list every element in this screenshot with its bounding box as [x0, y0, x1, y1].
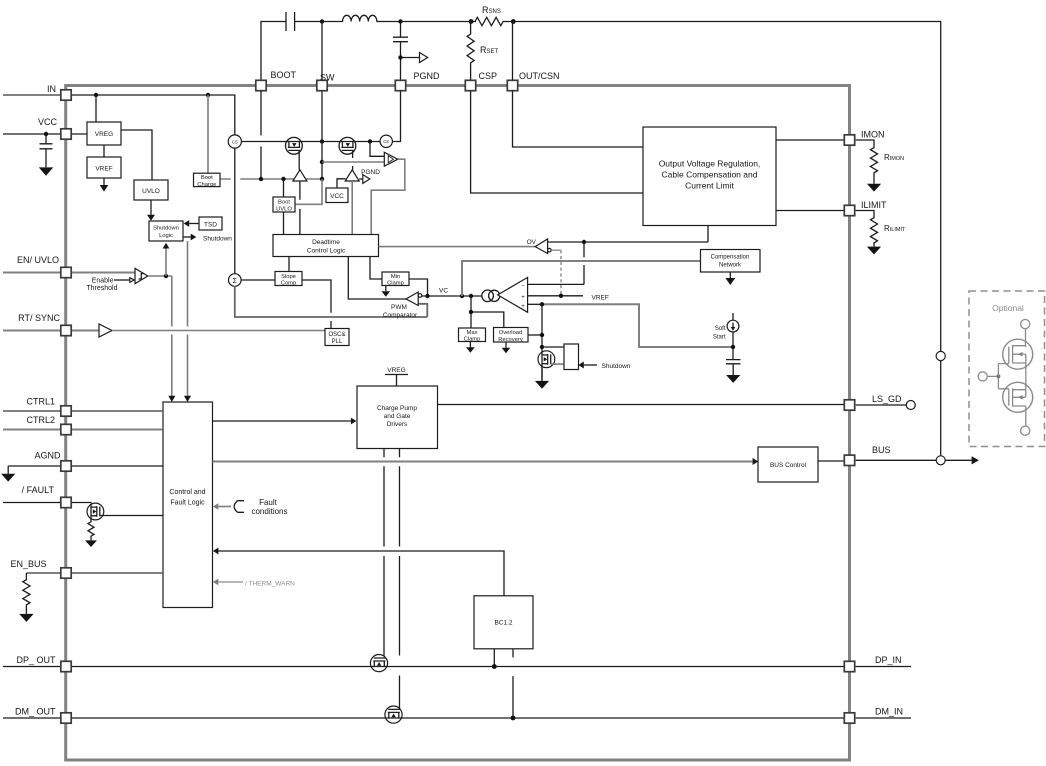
svg-text:Boot: Boot	[201, 175, 213, 181]
node soft start	[731, 345, 735, 349]
wire BUS external	[856, 459, 972, 461]
svg-text:Optional: Optional	[992, 303, 1024, 313]
node OV input	[582, 240, 586, 244]
wire enable down to Control Logic	[171, 276, 173, 396]
resistor EN_BUS pulldown	[23, 573, 30, 614]
wire BC1.2 to DM	[512, 649, 514, 718]
wire deadtime to OV comparator	[379, 246, 536, 248]
wire EN_BUS	[26, 572, 162, 574]
block Slope Comp	[275, 272, 302, 286]
svg-text:PLL: PLL	[332, 339, 343, 345]
svg-text:ILIMIT: ILIMIT	[861, 200, 887, 210]
wire CS comparator out to deadtime	[371, 159, 405, 234]
pin DM_IN	[844, 713, 854, 723]
node VCC cap	[44, 132, 48, 136]
node optional gate junction	[996, 374, 1000, 378]
block Output Voltage Regulation	[643, 127, 776, 226]
svg-text:Clamp: Clamp	[464, 337, 481, 343]
svg-text:Clamp: Clamp	[387, 281, 404, 287]
ground Q3	[535, 381, 549, 389]
svg-text:Fault Logic: Fault Logic	[170, 500, 205, 507]
resistor Rimon	[856, 140, 878, 184]
wire shutdown discharge branch	[541, 304, 543, 380]
svg-text:Comparator: Comparator	[383, 312, 418, 319]
wire Shutdown Logic to Control Logic	[187, 241, 189, 396]
svg-text:+: +	[521, 295, 525, 301]
wire ILIMIT out	[776, 210, 844, 212]
gate OR fault conditions	[234, 501, 244, 513]
wire boot charge line	[220, 178, 322, 180]
svg-text:/ FAULT: / FAULT	[22, 485, 55, 495]
node IN-BootCharge	[206, 93, 210, 97]
node VC max clamp	[469, 294, 473, 298]
svg-text:Output Voltage Regulation,: Output Voltage Regulation,	[659, 159, 761, 169]
arrow VREF down	[103, 178, 105, 185]
svg-text:Drivers: Drivers	[387, 421, 408, 428]
wire slope comp to deadtime	[288, 257, 290, 272]
pin BUS	[844, 455, 854, 465]
transistor Q7 optional high	[1003, 339, 1033, 369]
ground Rilimit	[867, 247, 881, 255]
svg-text:and Gate: and Gate	[384, 413, 411, 420]
svg-text:DM_IN: DM_IN	[875, 707, 903, 717]
svg-text:AGND: AGND	[34, 451, 61, 461]
svg-text:Cable Compensation and: Cable Compensation and	[662, 170, 758, 180]
ground PGND flag driver	[359, 178, 363, 180]
node Rsns right	[511, 19, 516, 24]
wire AGND	[8, 465, 163, 467]
wire OV ref dashed	[551, 249, 561, 251]
arrow Shutdown out	[184, 236, 191, 238]
arrow compensation down	[729, 272, 731, 278]
node VREF	[559, 294, 563, 298]
op-amp LS gate driver	[345, 170, 359, 181]
svg-text:OSC&: OSC&	[328, 332, 345, 338]
pin IN	[61, 90, 71, 100]
svg-text:Shutdown: Shutdown	[203, 236, 232, 243]
svg-text:Slope: Slope	[281, 274, 296, 280]
pin CSP	[465, 80, 475, 90]
block BC1.2	[474, 596, 533, 649]
svg-text:UVLO: UVLO	[142, 188, 160, 195]
svg-text:VREG: VREG	[387, 367, 405, 374]
capacitor output cap	[393, 22, 408, 81]
svg-text:BC1.2: BC1.2	[494, 620, 512, 627]
wire sigma to slope comp	[241, 279, 275, 281]
svg-text:Min: Min	[391, 274, 400, 280]
pin IMON	[844, 135, 854, 145]
svg-text:UVLO: UVLO	[276, 206, 292, 212]
block Boot UVLO	[273, 197, 295, 212]
wire VC to clamps	[471, 296, 504, 328]
wire fault gate to control	[100, 515, 163, 517]
wire comparator out	[148, 275, 172, 277]
node CS circle right	[380, 135, 392, 147]
arrow into Control top right	[184, 396, 191, 402]
pin DM_OUT	[61, 713, 71, 723]
svg-text:Control and: Control and	[169, 489, 205, 496]
block Overload Recovery	[494, 328, 529, 343]
svg-text:Σ: Σ	[233, 278, 238, 285]
wire LS driver to deadtime	[351, 181, 353, 235]
wire slope comp to OSC	[302, 280, 331, 329]
arrow overload down	[505, 342, 507, 348]
resistor fault pulldown	[88, 520, 94, 541]
svg-text:Threshold: Threshold	[86, 285, 117, 292]
node SW-rail	[320, 139, 324, 143]
svg-text:VREG: VREG	[95, 131, 113, 138]
svg-text:EN_BUS: EN_BUS	[10, 559, 46, 569]
svg-text:Overload: Overload	[499, 330, 523, 336]
pin DP_OUT	[61, 661, 71, 671]
pin CTRL2	[61, 424, 71, 434]
node IN-VREG	[94, 93, 98, 97]
wire BC1.2 to control	[218, 551, 504, 596]
wire top rail BOOT riser	[261, 22, 286, 81]
svg-text:SW: SW	[320, 73, 335, 83]
wire sigma to PWM input	[235, 286, 427, 317]
ground AGND	[7, 466, 9, 474]
node VC comp network	[460, 294, 464, 298]
wire min clamp to VC	[409, 279, 428, 296]
svg-text:Enable: Enable	[92, 278, 114, 285]
wire to Rsns	[401, 21, 477, 23]
wire control to bus control	[213, 461, 753, 463]
wire VCC to LS driver	[337, 179, 346, 188]
pin OUT/CSN	[507, 80, 517, 90]
svg-text:RSNS: RSNS	[482, 5, 501, 15]
wire DM line	[3, 717, 844, 719]
svg-text:conditions: conditions	[251, 507, 287, 516]
svg-text:Comp: Comp	[281, 281, 296, 287]
transistor Q6 DM switch	[385, 706, 402, 723]
op-amp HS gate driver	[293, 170, 307, 181]
svg-text:PGND: PGND	[414, 71, 441, 81]
wire power stage rail	[241, 141, 380, 143]
node boot line UVLO tap	[281, 177, 285, 181]
svg-text:IN: IN	[47, 84, 56, 94]
arrow shutdown in	[584, 364, 597, 366]
wire CTRL1	[3, 410, 163, 412]
arrow enable label pointer	[114, 279, 130, 281]
block TSD	[199, 217, 222, 230]
wire IN to VREG	[95, 95, 97, 122]
resistor Rilimit	[856, 211, 878, 247]
ground soft start	[726, 375, 740, 383]
transistor Q1 high-side	[286, 137, 303, 169]
capacitor boot cap	[286, 12, 295, 31]
pin DP_IN	[844, 661, 854, 671]
wire soft start net	[542, 304, 731, 347]
svg-text:+: +	[521, 304, 525, 310]
wire OUT/CSN feed	[513, 22, 644, 148]
block Control and Fault Logic	[163, 402, 213, 608]
svg-text:LS_GD: LS_GD	[872, 394, 902, 404]
wire RT/SYNC to OSC	[112, 330, 325, 332]
ground PGND flag top	[401, 57, 420, 59]
svg-text:VREF: VREF	[95, 166, 112, 173]
svg-text:IMON: IMON	[861, 130, 885, 140]
wire IN stub external	[3, 94, 61, 96]
wire bus control to pin	[818, 460, 844, 462]
wire enable up to Shutdown Logic	[165, 249, 167, 277]
node DM junction	[511, 716, 516, 721]
block Deadtime Control Logic	[273, 235, 379, 257]
block VCC driver supply	[326, 188, 348, 203]
wire DM_IN external	[856, 717, 911, 719]
transistor Q4 fault	[87, 503, 104, 520]
svg-text:Logic: Logic	[159, 233, 173, 239]
svg-text:Boot: Boot	[278, 200, 290, 206]
wire Q3 to ground	[541, 367, 543, 381]
wire HS driver to deadtime	[299, 181, 301, 235]
wire /FAULT	[3, 502, 91, 505]
block shutdown driver	[564, 344, 579, 370]
node Rset top	[469, 19, 474, 24]
node optional gate terminal	[978, 372, 987, 381]
block Optional dashed	[969, 291, 1045, 447]
wire CS left down to sigma	[234, 148, 236, 274]
buffer RT/SYNC	[99, 324, 112, 337]
node sigma summer	[229, 274, 242, 287]
pin AGND	[61, 461, 71, 471]
wire top rail to right edge	[513, 22, 940, 456]
wire RT/SYNC external	[3, 330, 99, 332]
node clamp branch	[469, 310, 473, 314]
node boot line BOOT	[259, 177, 263, 181]
node enable out	[164, 274, 168, 278]
svg-text:Max: Max	[467, 330, 478, 336]
node optional top terminal	[1021, 320, 1030, 329]
svg-text:Charge: Charge	[197, 182, 216, 188]
node output cap gnd	[398, 55, 402, 59]
node SW top	[320, 19, 324, 23]
svg-text:CTRL2: CTRL2	[26, 415, 55, 425]
node boot line SW	[320, 177, 324, 181]
svg-text:OUT/CSN: OUT/CSN	[519, 71, 560, 81]
wire gate drive DM	[399, 449, 401, 710]
node CS circle left	[228, 135, 241, 148]
node overload tap	[540, 333, 544, 337]
wire SW riser	[321, 22, 323, 81]
transistor Q2 low-side	[339, 137, 356, 169]
node LS drain	[368, 139, 372, 143]
svg-text:DP_IN: DP_IN	[875, 655, 902, 665]
wire cap to SW node	[295, 21, 322, 23]
block Boot Charge	[194, 173, 221, 186]
wire control to charge pump	[213, 420, 351, 422]
inductor L	[322, 15, 401, 21]
node VC min clamp	[425, 294, 429, 298]
node open circle right rail	[936, 351, 945, 360]
svg-text:BUS: BUS	[872, 445, 891, 455]
wire DP_IN external	[856, 666, 911, 668]
wire VC to compensation network	[462, 261, 701, 296]
wire DP line	[3, 666, 844, 668]
op-amp OV comparator	[535, 239, 547, 254]
block Charge Pump and Gate Drivers	[357, 386, 438, 449]
wire IN to Boot Charge	[207, 95, 209, 173]
wire UVLO to Shutdown Logic	[150, 200, 152, 215]
wire VC line	[422, 295, 482, 297]
svg-text:VREF: VREF	[592, 294, 609, 301]
wire SW to CS comparator	[322, 161, 384, 163]
wire optional source bottom	[1025, 406, 1027, 426]
wire deadtime to min clamp	[370, 257, 382, 280]
capacitor soft start	[726, 360, 741, 375]
pin BOOT	[256, 80, 266, 90]
op-amp CS comparator	[384, 152, 398, 166]
block Max Clamp	[459, 328, 486, 342]
block Min Clamp	[382, 272, 409, 286]
IC boundary	[66, 86, 850, 761]
svg-text:CS: CS	[232, 139, 238, 144]
svg-text:CSP: CSP	[479, 71, 498, 81]
svg-text:/ THERM_WARN: / THERM_WARN	[245, 580, 295, 587]
svg-text:VC: VC	[439, 288, 448, 295]
svg-text:RSET: RSET	[480, 45, 499, 55]
resistor Rsns	[475, 17, 513, 25]
svg-text:TSD: TSD	[204, 222, 217, 229]
wire VREG to VREF	[103, 145, 105, 157]
svg-text:Start: Start	[713, 335, 726, 341]
pin VCC	[61, 129, 71, 139]
wire BC1.2 to DP	[493, 649, 495, 667]
wire LS_GD external	[856, 404, 907, 406]
arrow TSD to Shutdown Logic	[189, 223, 199, 225]
resistor Rset	[467, 22, 474, 81]
svg-text:−: −	[521, 284, 525, 290]
arrow min clamp down	[385, 286, 387, 292]
svg-text:BUS Control: BUS Control	[770, 462, 807, 469]
svg-text:Fault: Fault	[259, 498, 278, 507]
pin /FAULT	[61, 497, 71, 507]
svg-text:CTRL1: CTRL1	[26, 397, 55, 407]
svg-text:Shutdown: Shutdown	[153, 226, 179, 232]
block Compensation Network	[701, 250, 761, 273]
wire error amp neg input	[528, 242, 584, 284]
wire optional drain top	[1025, 329, 1027, 346]
wire error amp soft start input	[528, 303, 542, 305]
ground VCC cap	[39, 167, 53, 175]
svg-text:EN/ UVLO: EN/ UVLO	[17, 255, 59, 265]
wire VCC external	[3, 133, 87, 135]
pin RT/SYNC	[61, 325, 71, 335]
arrow therm warn	[218, 581, 243, 583]
svg-text:RILIMIT: RILIMIT	[884, 224, 906, 233]
svg-text:DM_ OUT: DM_ OUT	[15, 707, 56, 717]
node LS_GD terminal	[906, 401, 915, 410]
svg-text:Compensation: Compensation	[711, 255, 750, 261]
capacitor VCC bypass	[40, 134, 53, 167]
ground fault	[85, 540, 97, 547]
svg-text:VCC: VCC	[330, 193, 344, 200]
svg-text:DP_ OUT: DP_ OUT	[16, 655, 56, 665]
svg-text:RT/ SYNC: RT/ SYNC	[18, 313, 60, 323]
svg-text:Shutdown: Shutdown	[602, 363, 631, 370]
wire EN/UVLO to comparator	[3, 272, 135, 274]
node DP junction	[492, 664, 497, 669]
wire boot line to Boot UVLO	[283, 179, 285, 197]
wire soft start node	[732, 332, 734, 359]
pin LS_GD	[844, 400, 854, 410]
pin EN/UVLO	[61, 267, 71, 277]
ground EN_BUS	[19, 614, 33, 622]
block VREG	[87, 122, 121, 145]
wire CSP feed	[471, 91, 643, 193]
svg-text:Charge Pump: Charge Pump	[377, 405, 417, 412]
arrow into Control top left	[168, 396, 175, 402]
wire Boot UVLO to deadtime	[283, 212, 285, 235]
transistor Q3 soft start discharge	[538, 351, 564, 368]
svg-text:Recovery: Recovery	[498, 337, 523, 343]
wire VREF input	[528, 295, 583, 297]
node BUS terminal	[936, 456, 945, 465]
op-amp Enable comparator	[135, 268, 148, 283]
transistor Q8 optional low	[1003, 382, 1033, 412]
node optional bottom terminal	[1021, 426, 1030, 435]
node SW comparator tap	[320, 160, 324, 164]
node shutdown box tap	[540, 345, 544, 349]
svg-text:Deadtime: Deadtime	[312, 239, 340, 246]
svg-text:Current Limit: Current Limit	[685, 181, 734, 191]
svg-text:BOOT: BOOT	[271, 70, 297, 80]
wire VREG flag	[385, 375, 408, 387]
pin CTRL1	[61, 406, 71, 416]
block Shutdown Logic	[149, 221, 183, 241]
wire BOOT pin down	[260, 91, 262, 179]
ground Rimon	[867, 184, 881, 192]
wire CS right to PGND pin	[392, 91, 400, 142]
arrow BUS out	[972, 456, 979, 464]
wire optional gates	[987, 364, 1009, 389]
current source soft start	[732, 313, 734, 320]
node inductor out	[398, 19, 402, 23]
pin SW	[317, 80, 327, 90]
wire IN net internal	[61, 95, 235, 135]
block VREF	[87, 157, 121, 178]
wire drain tap to CS comparator	[370, 142, 384, 157]
block BUS Control	[758, 447, 818, 482]
op-amp PWM comparator	[348, 257, 406, 299]
block OSC and PLL	[325, 329, 349, 346]
wire charge pump to LS_GD	[438, 404, 845, 406]
wire OV sense from regulation box	[548, 226, 708, 243]
svg-text:Soft: Soft	[715, 326, 726, 332]
svg-text:VCC: VCC	[38, 117, 58, 127]
pin ILIMIT	[844, 205, 854, 215]
node soft start branch	[540, 302, 544, 306]
svg-text:PGND: PGND	[361, 169, 380, 176]
svg-text:Network: Network	[719, 263, 742, 269]
wire SW pin down	[321, 91, 323, 179]
op-amp error amplifier	[482, 290, 494, 302]
block UVLO	[134, 180, 168, 200]
wire VREG to UVLO	[121, 130, 152, 180]
svg-text:RIMON: RIMON	[884, 153, 904, 162]
svg-text:Control Logic: Control Logic	[307, 248, 346, 255]
pin PGND	[395, 80, 405, 90]
svg-text:CS: CS	[383, 139, 389, 144]
wire SW to Boot UVLO	[295, 179, 322, 204]
arrow fault conditions in	[218, 506, 231, 508]
wire gate drive DP	[383, 449, 385, 658]
svg-text:PWM: PWM	[391, 304, 407, 311]
transistor Q5 DP switch	[370, 655, 387, 672]
arrow max clamp down	[469, 342, 471, 348]
svg-text:OV: OV	[527, 239, 537, 246]
wire optional midpoint	[1025, 363, 1027, 390]
